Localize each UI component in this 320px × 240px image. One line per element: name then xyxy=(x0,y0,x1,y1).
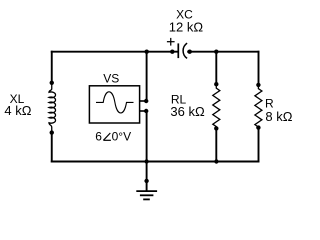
svg-text:4 kΩ: 4 kΩ xyxy=(4,103,31,118)
wire RL branch upper (top bus to RL) xyxy=(215,51,217,85)
source VS box xyxy=(89,86,139,123)
terminal dot capacitor XC right pin xyxy=(188,50,192,54)
svg-text:12 kΩ: 12 kΩ xyxy=(169,20,204,35)
capacitor XC curved plate xyxy=(183,43,187,58)
terminal dot VS plus pin xyxy=(144,99,148,103)
wire VS branch lower (VS - terminal to bottom bus) xyxy=(146,111,148,163)
svg-text:36 kΩ: 36 kΩ xyxy=(170,104,205,119)
wire top bus left segment (node A) xyxy=(51,51,178,53)
ground symbol xyxy=(136,191,157,199)
terminal dot VS minus pin xyxy=(144,109,148,113)
terminal dot RL bottom pin xyxy=(214,126,218,130)
resistor R zigzag xyxy=(255,85,262,127)
junction dot bottom bus / ground branch xyxy=(144,159,148,163)
terminal dot XL bottom pin xyxy=(50,130,54,134)
wire left vertical lower (XL to bottom bus) xyxy=(51,132,53,162)
junction dot bottom bus / RL branch xyxy=(214,159,218,163)
inductor XL coil xyxy=(49,83,56,132)
terminal dot capacitor XC left pin xyxy=(170,50,174,54)
terminal dot R top pin xyxy=(256,83,260,87)
wire left vertical upper (top corner to XL) xyxy=(51,51,53,83)
wire VS branch upper (top bus to VS + terminal) xyxy=(146,51,148,102)
source VS sine waveform xyxy=(96,92,134,113)
wire top bus right segment (node B) xyxy=(187,51,259,53)
svg-text:0°V: 0°V xyxy=(112,129,131,143)
wire VS lower pin stub xyxy=(140,110,147,112)
wire bottom bus (ground net) xyxy=(51,161,260,163)
svg-text:VS: VS xyxy=(103,72,119,86)
wire RL branch lower (RL to bottom bus) xyxy=(215,128,217,162)
resistor RL zigzag xyxy=(213,85,220,128)
junction dot top bus / RL branch xyxy=(214,50,218,54)
wire ground stem xyxy=(146,161,148,192)
terminal dot ground pin xyxy=(144,179,148,183)
label VS value angle symbol xyxy=(103,133,111,140)
svg-text:6: 6 xyxy=(95,129,102,143)
wire right vertical lower (R to bottom bus) xyxy=(258,127,260,162)
terminal dot XL top pin xyxy=(50,81,54,85)
capacitor XC polarity plus sign xyxy=(167,38,175,46)
svg-text:8 kΩ: 8 kΩ xyxy=(265,109,292,124)
capacitor XC left plate xyxy=(177,43,179,58)
wire right vertical upper (top bus to R) xyxy=(258,51,260,86)
junction dot top bus / VS branch xyxy=(145,50,149,54)
terminal dot RL top pin xyxy=(214,82,218,86)
terminal dot R bottom pin xyxy=(256,125,260,129)
wire VS upper pin stub xyxy=(140,100,147,102)
